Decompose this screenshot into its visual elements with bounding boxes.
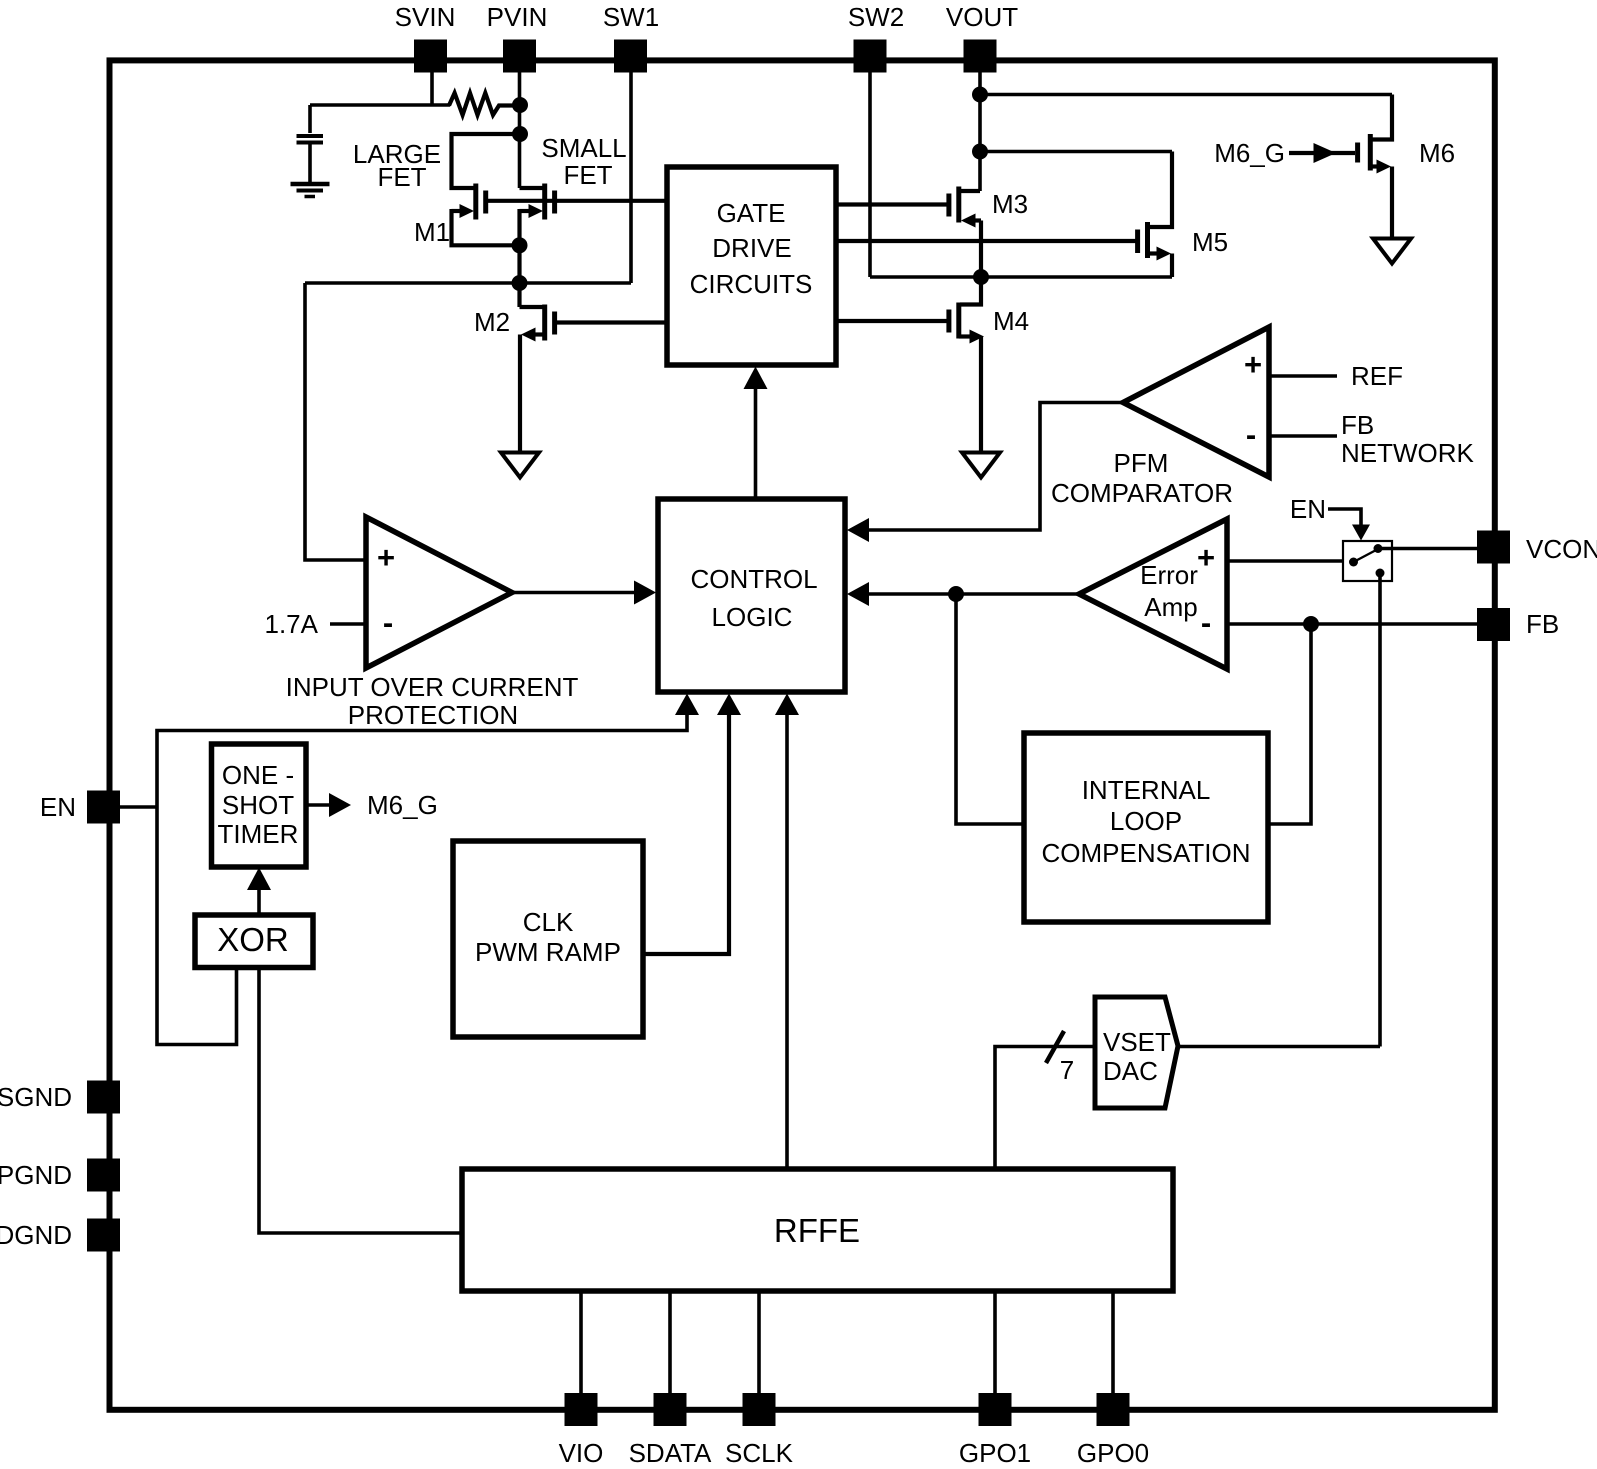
transistor M4 gate bar bbox=[946, 310, 951, 333]
wire RFFE to SDATA pin bbox=[668, 1291, 672, 1395]
svg-text:DRIVE: DRIVE bbox=[712, 233, 791, 263]
svg-text:NETWORK: NETWORK bbox=[1341, 438, 1475, 468]
block CLK PWM RAMP bbox=[453, 841, 643, 1037]
svg-text:EN: EN bbox=[40, 792, 76, 822]
ground under M2 bbox=[501, 453, 539, 478]
block VSET DAC bbox=[1095, 997, 1178, 1108]
svg-text:COMPARATOR: COMPARATOR bbox=[1051, 478, 1233, 508]
resistor R1 bbox=[449, 93, 519, 115]
svg-text:GPO1: GPO1 bbox=[959, 1438, 1031, 1468]
wire error amp - input to FB pin bbox=[1227, 622, 1477, 626]
wire XOR second input from RFFE bbox=[259, 967, 462, 1233]
wire VSET DAC output bbox=[1178, 1045, 1380, 1049]
svg-text:VSET: VSET bbox=[1103, 1027, 1171, 1057]
wire SVIN pin drop bbox=[430, 70, 434, 105]
junction VOUT/M6 bbox=[972, 87, 988, 103]
wire M4 source down bbox=[979, 337, 983, 453]
chip outer border bbox=[110, 60, 1495, 1409]
block RFFE bbox=[462, 1169, 1173, 1291]
wire M5 drain bend bbox=[1148, 152, 1173, 228]
wire PFM output to control logic bbox=[867, 403, 1123, 531]
svg-text:PGND: PGND bbox=[0, 1160, 72, 1190]
transistor SMALL FET gate bar bbox=[552, 191, 557, 214]
wire M6 drain long horizontal bbox=[980, 93, 1392, 97]
transistor M2 source arrow bbox=[521, 328, 536, 342]
junction VOUT/M5 bbox=[972, 144, 988, 160]
pin EN bbox=[87, 791, 120, 824]
wire EN to switch with arrow bbox=[1328, 509, 1361, 525]
pin SW1 bbox=[614, 40, 647, 73]
junction SW2 node bbox=[973, 269, 989, 285]
svg-text:VIO: VIO bbox=[559, 1438, 604, 1468]
wire RFFE to SCLK pin bbox=[757, 1291, 761, 1395]
svg-text:RFFE: RFFE bbox=[774, 1212, 860, 1249]
wire SW2 node horizontal bbox=[870, 275, 1172, 279]
svg-text:FB: FB bbox=[1341, 410, 1374, 440]
block ONE-SHOT TIMER bbox=[212, 744, 307, 867]
svg-text:+: + bbox=[1244, 347, 1262, 382]
svg-text:EN: EN bbox=[1290, 494, 1326, 524]
svg-text:SCLK: SCLK bbox=[725, 1438, 794, 1468]
block XOR bbox=[195, 915, 313, 968]
transistor M6 source arrow bbox=[1377, 160, 1392, 174]
wire FB NETWORK input bbox=[1269, 434, 1337, 438]
svg-text:FB: FB bbox=[1526, 609, 1559, 639]
ground under M6 bbox=[1373, 239, 1411, 264]
transistor M4 channel bar bbox=[956, 303, 961, 339]
svg-text:PVIN: PVIN bbox=[487, 2, 548, 32]
transistor M5 source arrow bbox=[1157, 247, 1172, 261]
wire PVIN pin drop to small FET drain bbox=[518, 70, 522, 188]
wire EN riser and branch to control logic arrow 1 bbox=[157, 714, 687, 1045]
block INTERNAL LOOP COMPENSATION bbox=[1024, 733, 1268, 922]
wire SW1 pin drop bbox=[629, 70, 633, 283]
wire SW2 pin drop bbox=[868, 70, 872, 277]
svg-text:COMPENSATION: COMPENSATION bbox=[1042, 838, 1251, 868]
junction SW1 node bbox=[512, 275, 528, 291]
wire M1 drain bend bbox=[452, 134, 520, 188]
svg-text:LOGIC: LOGIC bbox=[712, 602, 793, 632]
pin SGND bbox=[87, 1081, 120, 1114]
wire control logic to gate drive with arrow bbox=[754, 388, 758, 499]
bus slash marker bbox=[1046, 1031, 1064, 1063]
wire RFFE to GPO1 pin bbox=[993, 1291, 997, 1395]
wire M4 drain bend bbox=[960, 277, 981, 305]
svg-text:VOUT: VOUT bbox=[946, 2, 1018, 32]
svg-text:CLK: CLK bbox=[523, 907, 574, 937]
svg-text:M5: M5 bbox=[1192, 227, 1228, 257]
capacitor C1 plates bbox=[297, 134, 324, 138]
transistor M1 gate bar bbox=[483, 191, 488, 214]
svg-text:7: 7 bbox=[1060, 1055, 1074, 1085]
transistor M3 source arrow bbox=[961, 214, 976, 228]
junction PVIN branch bbox=[512, 126, 528, 142]
block CONTROL LOGIC bbox=[658, 499, 845, 692]
transistor M6 gate bar bbox=[1355, 143, 1360, 163]
svg-text:+: + bbox=[1197, 540, 1215, 575]
wire EN pin to riser bbox=[120, 805, 157, 809]
wire RFFE to VSET DAC bus bbox=[995, 1047, 1095, 1170]
op-amp PFM comparator bbox=[1123, 327, 1269, 477]
wire riser to over-current + input bbox=[305, 283, 364, 560]
wire M6 gate with input arrow bbox=[1289, 151, 1355, 155]
wire RFFE to control logic arrow 3 bbox=[785, 714, 789, 1169]
wire M2 drain bend bbox=[520, 305, 544, 309]
wire compensation right leg bbox=[1268, 624, 1311, 824]
transistor M5 gate bar bbox=[1135, 230, 1140, 254]
transistor M3 gate bar bbox=[946, 194, 951, 217]
svg-text:ONE -: ONE - bbox=[222, 760, 294, 790]
pin SVIN bbox=[414, 40, 447, 73]
transistor M5 channel bar bbox=[1145, 222, 1150, 258]
wire shared gate line M1/small FET to gate drive bbox=[487, 199, 667, 203]
svg-text:SDATA: SDATA bbox=[629, 1438, 712, 1468]
wire one-shot output arrow to M6_G bbox=[306, 803, 331, 807]
block GATE DRIVE CIRCUITS bbox=[667, 167, 836, 365]
junction FB line bbox=[1303, 616, 1319, 632]
transistor M6 channel bar bbox=[1368, 134, 1373, 171]
wire M5 gate long horizontal bbox=[836, 239, 1136, 243]
wire compensation left leg bbox=[956, 594, 1024, 824]
switch contacts bbox=[1349, 558, 1358, 567]
wire M2 gate to gate drive bbox=[556, 320, 667, 324]
wire error amp + input to switch bbox=[1227, 559, 1343, 563]
wire error amp output to control logic bbox=[867, 592, 1079, 596]
capacitor C1 bottom lead bbox=[308, 145, 312, 183]
pin SCLK bbox=[743, 1393, 776, 1426]
svg-text:INPUT OVER CURRENT: INPUT OVER CURRENT bbox=[286, 672, 579, 702]
wire switch lower contact down to VSET DAC output bbox=[1378, 573, 1382, 1047]
svg-text:+: + bbox=[377, 540, 395, 575]
pin PVIN bbox=[503, 40, 536, 73]
wire M5 source down bbox=[1170, 254, 1174, 278]
wire M3 gate to gate drive bbox=[836, 202, 947, 206]
svg-text:SW1: SW1 bbox=[603, 2, 659, 32]
wire REF input bbox=[1269, 374, 1337, 378]
svg-text:DAC: DAC bbox=[1103, 1056, 1158, 1086]
svg-text:TIMER: TIMER bbox=[218, 819, 299, 849]
capacitor C1 top lead bbox=[308, 105, 312, 133]
pin DGND bbox=[87, 1219, 120, 1252]
svg-text:M6_G: M6_G bbox=[1214, 138, 1285, 168]
pin VOUT bbox=[964, 40, 997, 73]
svg-text:INTERNAL: INTERNAL bbox=[1082, 775, 1211, 805]
svg-text:CONTROL: CONTROL bbox=[690, 564, 817, 594]
svg-text:PWM RAMP: PWM RAMP bbox=[475, 937, 621, 967]
svg-text:SGND: SGND bbox=[0, 1082, 72, 1112]
svg-text:GPO0: GPO0 bbox=[1077, 1438, 1149, 1468]
svg-text:M1: M1 bbox=[414, 217, 450, 247]
svg-text:SVIN: SVIN bbox=[395, 2, 456, 32]
svg-text:1.7A: 1.7A bbox=[265, 609, 319, 639]
transistor M3 channel bar bbox=[956, 187, 961, 223]
svg-text:DGND: DGND bbox=[0, 1220, 72, 1250]
wire M2 source down bbox=[518, 335, 522, 453]
svg-text:SHOT: SHOT bbox=[222, 790, 294, 820]
wire switch to VCON pin bbox=[1379, 547, 1477, 551]
op-amp Error Amp bbox=[1079, 519, 1227, 669]
junction resistor/PVIN bbox=[512, 97, 528, 113]
pin SW2 bbox=[854, 40, 887, 73]
pin GPO1 bbox=[979, 1393, 1012, 1426]
wire SW1 node horizontal bbox=[305, 281, 631, 285]
svg-text:REF: REF bbox=[1351, 361, 1403, 391]
svg-text:GATE: GATE bbox=[717, 198, 786, 228]
svg-text:M3: M3 bbox=[992, 189, 1028, 219]
wire M3 source down bbox=[979, 221, 983, 278]
svg-text:FET: FET bbox=[563, 160, 612, 190]
wire XOR to one-shot with arrow bbox=[257, 889, 261, 915]
wire CLK output to control logic arrow 2 bbox=[643, 714, 729, 954]
wire M3 drain bend bbox=[960, 189, 980, 193]
svg-text:SMALL: SMALL bbox=[541, 133, 626, 163]
transistor M1 source arrow bbox=[460, 204, 475, 218]
svg-text:XOR: XOR bbox=[217, 921, 289, 958]
svg-text:CIRCUITS: CIRCUITS bbox=[690, 269, 813, 299]
svg-text:FET: FET bbox=[377, 162, 426, 192]
wire over current output to control logic bbox=[512, 591, 636, 595]
svg-text:-: - bbox=[383, 605, 393, 640]
svg-text:-: - bbox=[1201, 605, 1211, 640]
svg-text:M2: M2 bbox=[474, 307, 510, 337]
svg-text:M6: M6 bbox=[1419, 138, 1455, 168]
pin GPO0 bbox=[1097, 1393, 1130, 1426]
pin VCON bbox=[1477, 531, 1510, 564]
svg-text:-: - bbox=[1246, 417, 1256, 452]
wire RFFE to GPO0 pin bbox=[1111, 1291, 1115, 1395]
pin SDATA bbox=[654, 1393, 687, 1426]
transistor M2 gate bar bbox=[552, 312, 557, 335]
pin FB bbox=[1477, 608, 1510, 641]
junction sources bbox=[512, 237, 528, 253]
svg-text:VCON: VCON bbox=[1526, 534, 1597, 564]
svg-text:M4: M4 bbox=[993, 306, 1029, 336]
wire SVIN node horizontal bbox=[310, 103, 450, 107]
wire M6 drain bend bbox=[1372, 95, 1392, 140]
pin PGND bbox=[87, 1159, 120, 1192]
svg-text:PFM: PFM bbox=[1114, 448, 1169, 478]
wire VOUT pin drop bbox=[978, 70, 982, 191]
svg-text:PROTECTION: PROTECTION bbox=[348, 700, 518, 730]
svg-text:M6_G: M6_G bbox=[367, 790, 438, 820]
junction error output bbox=[948, 586, 964, 602]
transistor M1 channel bar bbox=[473, 184, 478, 220]
pin VIO bbox=[565, 1393, 598, 1426]
transistor SMALL FET channel bar bbox=[542, 184, 547, 220]
op-amp input over current protection bbox=[366, 517, 512, 668]
ground under C1 bbox=[291, 184, 330, 197]
transistor SMALL FET drain bend bbox=[520, 186, 544, 190]
transistor SMALL FET source arrow bbox=[529, 204, 544, 218]
svg-text:LOOP: LOOP bbox=[1110, 806, 1182, 836]
ground under M4 bbox=[962, 453, 1000, 478]
wire small FET source down through junctions to M2 drain bbox=[517, 209, 521, 307]
switch EN/VCON box bbox=[1343, 541, 1392, 581]
wire M4 gate to gate drive bbox=[836, 319, 947, 323]
wire M5 drain horizontal bbox=[980, 150, 1172, 154]
svg-text:Amp: Amp bbox=[1144, 592, 1197, 622]
svg-text:Error: Error bbox=[1140, 560, 1198, 590]
wire 1.7A input bbox=[330, 622, 364, 626]
transistor M4 source arrow bbox=[970, 330, 985, 344]
wire M6 source down bbox=[1390, 167, 1394, 239]
svg-text:SW2: SW2 bbox=[848, 2, 904, 32]
wire RFFE to VIO pin bbox=[579, 1291, 583, 1395]
transistor M2 channel bar bbox=[542, 305, 547, 341]
wire M1 source bend bbox=[452, 209, 520, 245]
